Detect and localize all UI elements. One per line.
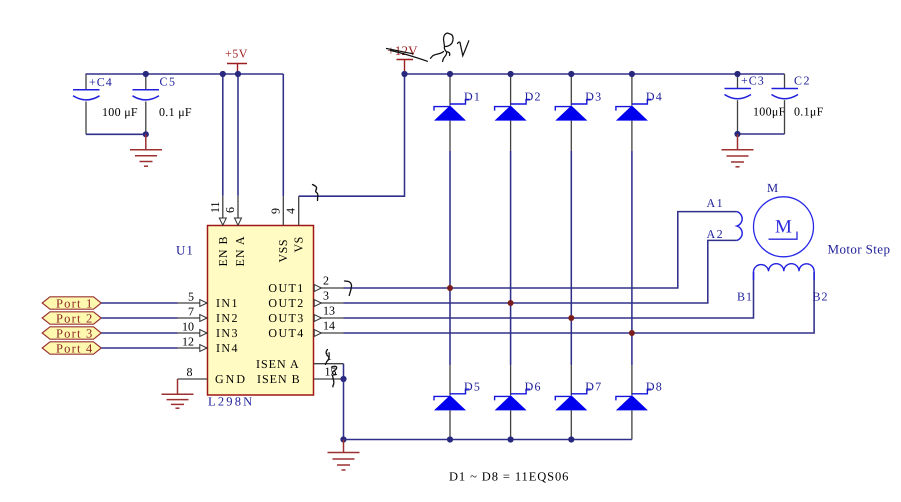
wire D4 to D8 xyxy=(631,151,633,366)
svg-text:10: 10 xyxy=(182,320,194,334)
port Port 4 xyxy=(42,341,101,355)
pin 7 IN2 (left) xyxy=(178,305,239,326)
svg-text:U1: U1 xyxy=(176,243,194,258)
diode D4 xyxy=(616,74,663,151)
svg-text:11: 11 xyxy=(208,201,222,213)
inductor phase B winding xyxy=(754,264,815,280)
diode D8 xyxy=(616,365,663,439)
annotation: handwritten squiggle figure xyxy=(431,33,454,62)
junction pin6 wire on rail xyxy=(235,71,241,77)
svg-text:Motor Step: Motor Step xyxy=(828,242,891,257)
wire D1 to D5 xyxy=(449,151,451,366)
junction C3 top rail xyxy=(734,71,740,77)
junction OUT3 x D3 (node B1) xyxy=(568,315,574,321)
wire VS pin 4 to +12V rail xyxy=(299,74,405,196)
svg-text:IN1: IN1 xyxy=(216,296,239,310)
annotation: slash over pin 1 xyxy=(326,350,329,365)
diode D7 xyxy=(555,365,602,439)
svg-text:GND: GND xyxy=(215,372,247,386)
svg-text:14: 14 xyxy=(323,319,335,333)
pin 2 OUT1 (right) xyxy=(268,274,343,296)
port Port 3 xyxy=(42,326,101,340)
svg-text:M: M xyxy=(767,181,779,195)
svg-text:D4: D4 xyxy=(646,90,663,104)
capacitor C4 xyxy=(73,74,138,134)
pin 12 IN4 (left) xyxy=(178,335,239,356)
junction OUT4 x D4 (node B2) xyxy=(629,330,635,336)
svg-text:ISEN A: ISEN A xyxy=(256,357,300,371)
svg-text:OUT4: OUT4 xyxy=(268,326,304,340)
junction OUT1 x D1 (node A1) xyxy=(447,285,453,291)
power +12V (crossed out) xyxy=(387,43,418,74)
svg-text:Port 3: Port 3 xyxy=(56,326,93,340)
pin 14 OUT4 (right) xyxy=(268,319,343,341)
svg-text:C2: C2 xyxy=(794,74,811,88)
svg-text:7: 7 xyxy=(188,305,194,319)
svg-text:IN4: IN4 xyxy=(216,341,239,355)
svg-text:+C4: +C4 xyxy=(89,75,113,89)
capacitor C2 xyxy=(772,74,824,135)
wire C4 to C5 bottom xyxy=(86,133,146,135)
svg-text:EN A: EN A xyxy=(233,236,247,267)
svg-text:L298N: L298N xyxy=(208,395,254,409)
ground (below C3) xyxy=(722,134,754,167)
svg-text:ISEN B: ISEN B xyxy=(257,372,301,386)
svg-text:OUT3: OUT3 xyxy=(268,311,304,325)
ground (below C5) xyxy=(130,134,162,166)
svg-text:0.1 μF: 0.1 μF xyxy=(159,105,192,119)
wire D3 to D7 xyxy=(570,151,572,366)
diode D3 xyxy=(555,74,602,151)
wire Port2 to IN2 xyxy=(101,317,177,319)
svg-text:6: 6 xyxy=(223,207,237,213)
pin 13 OUT3 (right) xyxy=(268,304,343,326)
wire D2 to D6 xyxy=(510,151,512,366)
svg-text:13: 13 xyxy=(323,304,335,318)
junction +12V stub on rail xyxy=(401,71,407,77)
wire ISEN A to ISEN B junction xyxy=(343,364,345,379)
junction C5 bottom xyxy=(143,131,149,137)
svg-text:100 μF: 100 μF xyxy=(102,105,138,119)
wire OUT2 to motor A2 xyxy=(344,240,737,303)
junction C3 bottom xyxy=(734,131,740,137)
pin 8 GND (left) xyxy=(178,365,248,386)
wire Port4 to IN4 xyxy=(101,347,177,349)
svg-text:M: M xyxy=(775,217,792,238)
svg-text:D1: D1 xyxy=(464,90,481,104)
wire bottom ground rail xyxy=(344,439,632,441)
wire +12V rail (top) xyxy=(405,73,785,75)
svg-text:D1 ~ D8 = 11EQS06: D1 ~ D8 = 11EQS06 xyxy=(449,470,569,484)
diode D1 xyxy=(434,74,481,151)
wire OUT3 to motor B1 xyxy=(344,272,754,318)
svg-text:3: 3 xyxy=(323,289,329,303)
annotation: tick on VS wire xyxy=(313,185,318,201)
diode D5 xyxy=(434,365,481,439)
svg-text:4: 4 xyxy=(284,208,298,214)
svg-text:+C3: +C3 xyxy=(741,74,765,88)
pin 5 IN1 (left) xyxy=(178,290,239,311)
annotation: strikethrough on +12V xyxy=(387,49,414,54)
capacitor C3 xyxy=(725,74,786,135)
junction D1 on +12V rail xyxy=(447,71,453,77)
svg-text:D5: D5 xyxy=(464,379,481,393)
annotation: handwritten V xyxy=(458,41,469,56)
svg-text:D2: D2 xyxy=(525,90,542,104)
wire C3 to C2 bottom xyxy=(738,133,785,135)
motor symbol letter M with underline xyxy=(769,217,798,240)
svg-text:OUT1: OUT1 xyxy=(268,281,304,295)
svg-text:0.1μF: 0.1μF xyxy=(794,105,824,119)
ground (bottom, below ISEN junction) xyxy=(328,440,360,471)
svg-text:8: 8 xyxy=(187,365,193,379)
junction pin11 wire on rail xyxy=(220,71,226,77)
junction ground rail left end xyxy=(340,436,346,442)
op-amp U1 body (L298N IC rectangle) xyxy=(208,226,314,396)
wire Port1 to IN1 xyxy=(101,302,177,304)
ground (IC GND pin) xyxy=(162,379,194,408)
pin 11 EN B (top) xyxy=(208,196,230,267)
svg-text:12: 12 xyxy=(182,335,194,349)
motor M circle xyxy=(754,197,814,257)
pin 15 ISEN B (right) xyxy=(257,365,343,387)
pin 4 VS (top) xyxy=(284,196,306,252)
capacitor C5 xyxy=(133,74,192,134)
svg-text:IN2: IN2 xyxy=(216,311,239,325)
wire OUT1 to motor A1 xyxy=(344,212,737,288)
port Port 2 xyxy=(42,311,101,325)
svg-text:D8: D8 xyxy=(646,379,663,393)
port Port 1 xyxy=(42,296,101,310)
svg-text:Port 2: Port 2 xyxy=(56,311,93,325)
diode D2 xyxy=(495,74,542,151)
svg-text:D7: D7 xyxy=(585,379,602,393)
inductor phase A winding xyxy=(737,212,742,241)
junction D6 on ground rail xyxy=(508,436,514,442)
svg-text:A1: A1 xyxy=(707,196,725,210)
svg-text:VS: VS xyxy=(292,236,306,252)
svg-text:B1: B1 xyxy=(737,290,753,304)
junction OUT2 x D2 (node A2) xyxy=(508,300,514,306)
wire +5V rail (top left) xyxy=(86,73,284,75)
pin 3 OUT2 (right) xyxy=(268,289,343,311)
wire Port3 to IN3 xyxy=(101,332,177,334)
wire EN B pin 11 to +5V rail xyxy=(222,74,224,196)
junction ISEN A/B xyxy=(340,376,346,382)
junction D2 on +12V rail xyxy=(508,71,514,77)
svg-text:C5: C5 xyxy=(160,75,177,89)
svg-text:2: 2 xyxy=(323,274,329,288)
diode D6 xyxy=(495,365,542,439)
svg-text:100μF: 100μF xyxy=(753,105,786,119)
svg-text:Port 1: Port 1 xyxy=(56,296,93,310)
svg-text:EN B: EN B xyxy=(216,236,230,267)
pin 9 VSS (top) xyxy=(268,196,290,262)
svg-text:OUT2: OUT2 xyxy=(268,296,304,310)
junction D3 on +12V rail xyxy=(568,71,574,77)
junction D5 on ground rail xyxy=(447,436,453,442)
wire OUT4 to motor B2 xyxy=(344,272,815,333)
svg-text:5: 5 xyxy=(188,290,194,304)
wire ISEN junction down to ground rail xyxy=(343,379,345,440)
junction D4 on +12V rail xyxy=(629,71,635,77)
power +5V xyxy=(225,47,248,75)
wire EN A pin 6 to +5V rail xyxy=(237,74,239,196)
svg-text:B2: B2 xyxy=(813,290,829,304)
svg-text:9: 9 xyxy=(268,208,282,214)
pin 6 EN A (top) xyxy=(223,196,247,267)
pin 1 ISEN A (right) xyxy=(256,349,343,371)
annotation: bracket near pin 2 xyxy=(345,281,352,296)
svg-text:VSS: VSS xyxy=(276,239,290,263)
svg-text:+5V: +5V xyxy=(225,47,248,61)
svg-text:D3: D3 xyxy=(585,90,602,104)
wire VSS pin 9 to +5V rail xyxy=(282,74,284,196)
svg-text:A2: A2 xyxy=(707,227,725,241)
svg-text:D6: D6 xyxy=(525,379,542,393)
svg-text:Port 4: Port 4 xyxy=(56,341,93,355)
junction C5 top rail xyxy=(143,71,149,77)
annotation: squiggle over pin 15 xyxy=(332,366,337,387)
pin 10 IN3 (left) xyxy=(178,320,239,341)
junction D7 on ground rail xyxy=(568,436,574,442)
svg-text:IN3: IN3 xyxy=(216,326,239,340)
